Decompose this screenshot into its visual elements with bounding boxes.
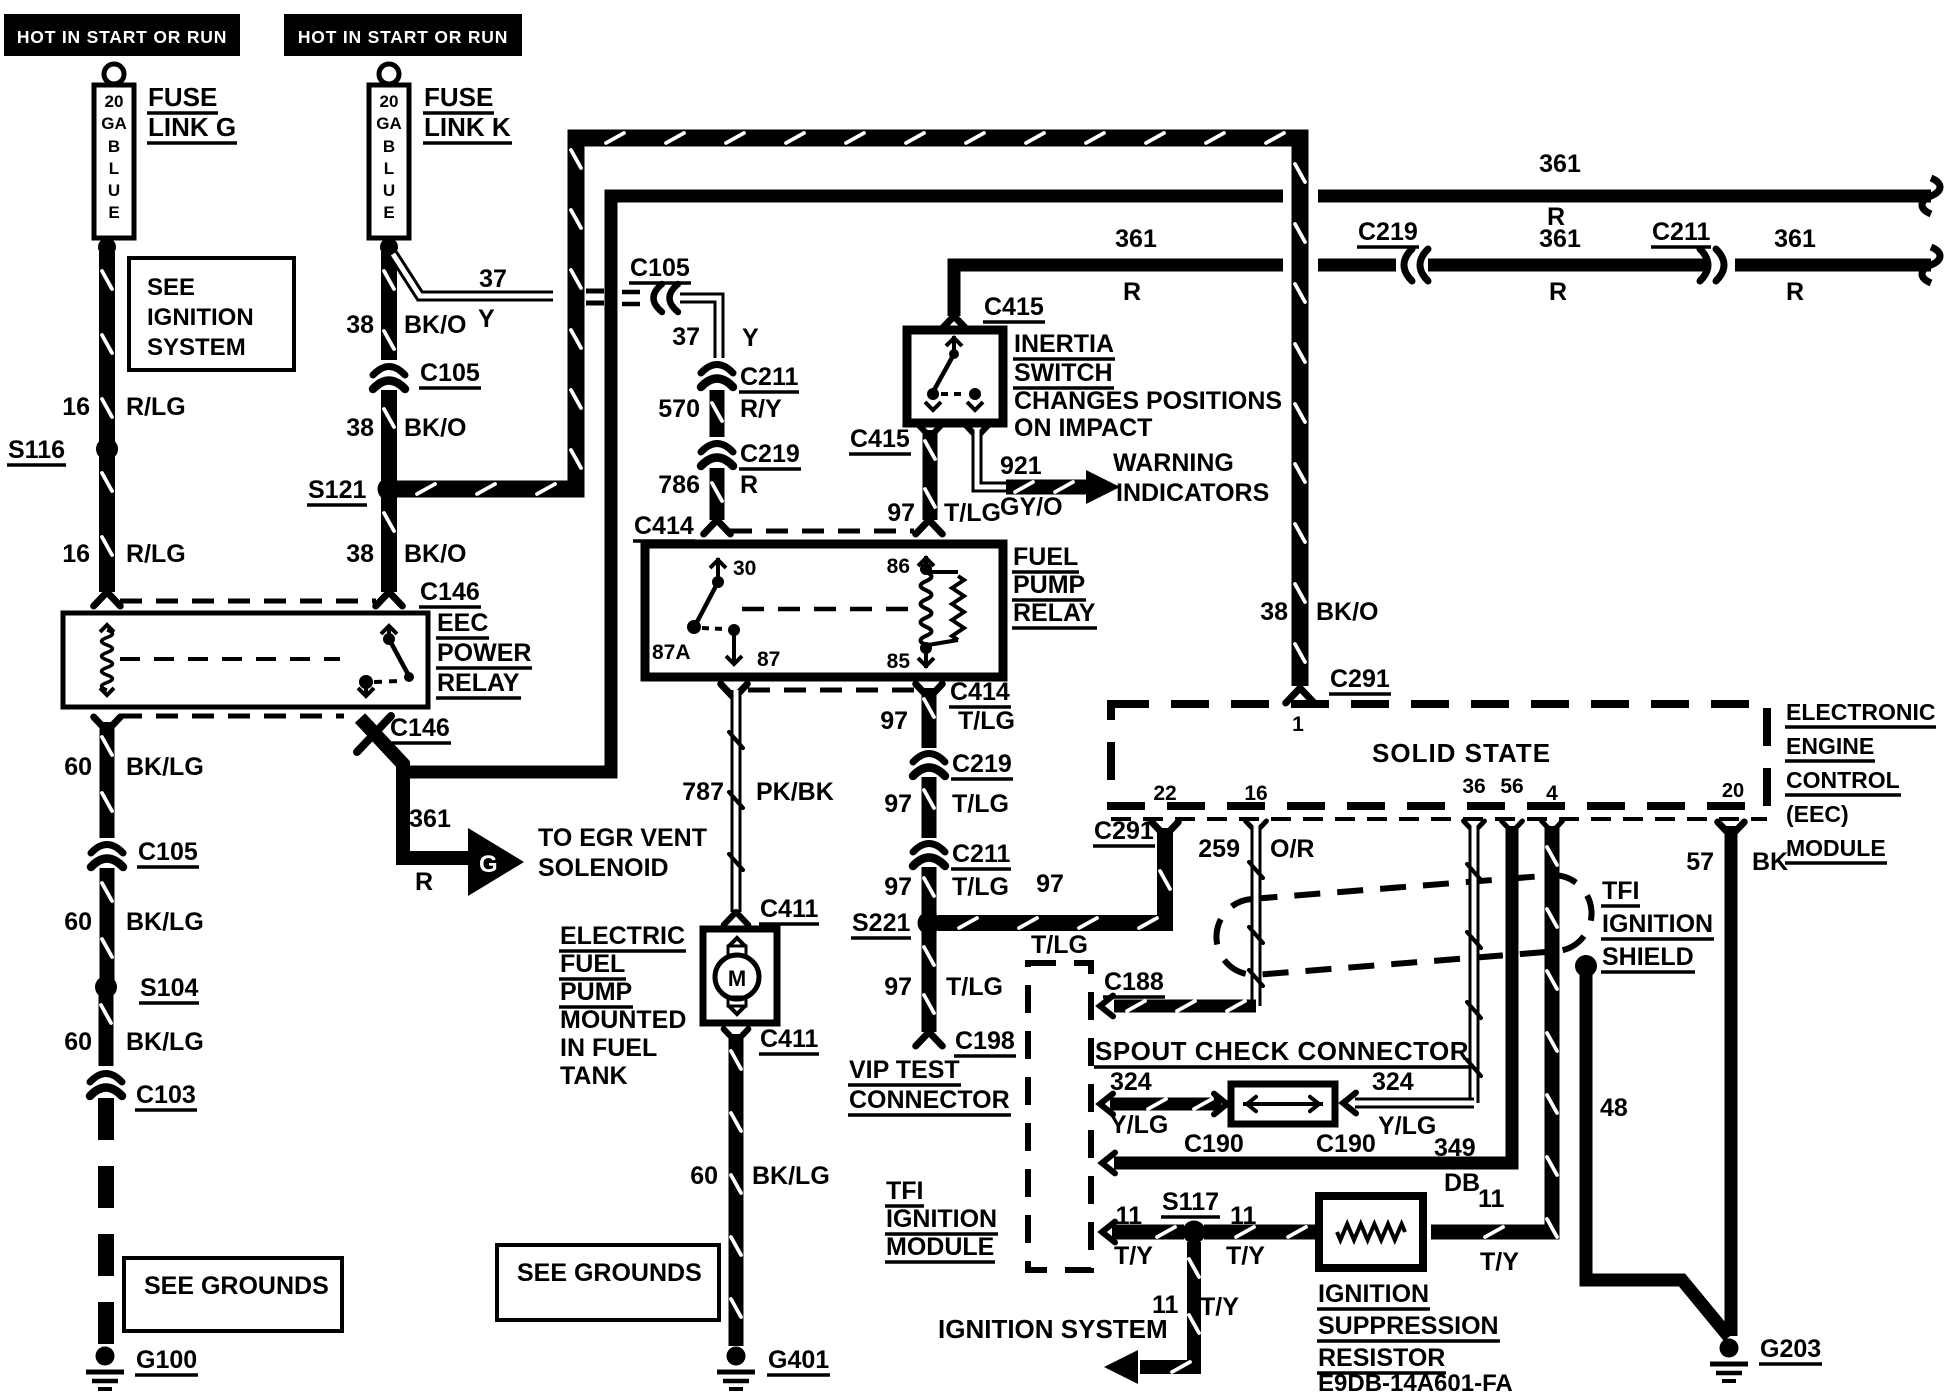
svg-text:SHIELD: SHIELD — [1602, 943, 1694, 971]
svg-text:324: 324 — [1110, 1068, 1152, 1096]
wire 11 T/Y (S117 down to ignition system) — [1140, 1242, 1194, 1367]
svg-text:C414: C414 — [950, 678, 1010, 706]
svg-text:IGNITION: IGNITION — [1318, 1280, 1429, 1308]
fuel pump relay dashed actuator line — [742, 607, 912, 612]
pin 4 V — [1542, 821, 1552, 832]
harness dashed line above fuel pump relay — [730, 529, 914, 534]
svg-text:SPOUT CHECK CONNECTOR: SPOUT CHECK CONNECTOR — [1095, 1036, 1469, 1066]
svg-text:PUMP: PUMP — [1013, 571, 1085, 599]
svg-text:C105: C105 — [630, 254, 690, 282]
label underlines — [147, 111, 218, 115]
svg-text:T/Y: T/Y — [1114, 1242, 1153, 1270]
splice S116 — [96, 438, 118, 460]
svg-text:4: 4 — [1546, 782, 1558, 805]
svg-text:R: R — [1786, 278, 1804, 306]
wire 921 arrow shaft — [1006, 480, 1086, 495]
svg-text:BK/LG: BK/LG — [126, 908, 204, 936]
svg-text:C291: C291 — [1094, 817, 1154, 845]
harness dashed line above EEC power relay — [120, 599, 376, 604]
svg-text:SEE GROUNDS: SEE GROUNDS — [517, 1259, 702, 1287]
svg-text:C146: C146 — [420, 578, 480, 606]
connector C146 left-top V — [94, 592, 107, 606]
svg-text:CHANGES POSITIONS: CHANGES POSITIONS — [1014, 387, 1282, 415]
svg-text:VIP TEST: VIP TEST — [849, 1056, 960, 1084]
svg-text:16: 16 — [62, 393, 90, 421]
svg-text:T/Y: T/Y — [1480, 1248, 1519, 1276]
connector C414 bottom-right V — [916, 684, 929, 698]
splice S104 — [95, 976, 117, 998]
svg-text:TFI: TFI — [886, 1177, 924, 1205]
splice S117 — [1183, 1221, 1206, 1244]
harness dashed line below fuel pump relay — [748, 688, 914, 693]
svg-text:GA: GA — [101, 114, 127, 133]
svg-text:O/R: O/R — [1270, 835, 1314, 863]
label HOT IN START OR RUN (right banner) — [284, 14, 522, 56]
svg-text:BK/O: BK/O — [404, 540, 467, 568]
svg-text:IGNITION SYSTEM: IGNITION SYSTEM — [938, 1314, 1168, 1344]
svg-text:C211: C211 — [1652, 218, 1710, 246]
svg-text:259: 259 — [1198, 835, 1240, 863]
svg-text:SUPPRESSION: SUPPRESSION — [1318, 1312, 1499, 1340]
wire 38 BK/O (C105 to S121) — [381, 390, 397, 484]
svg-text:ENGINE: ENGINE — [1786, 733, 1874, 759]
connector C291 pin22 V — [1152, 822, 1165, 836]
TFI ignition shield dashed oval — [1214, 872, 1595, 977]
svg-text:85: 85 — [887, 650, 911, 673]
ignition system arrowhead — [1104, 1350, 1138, 1384]
wire 921 GY/O — [977, 430, 1006, 487]
fuel pump relay box — [645, 544, 1003, 677]
svg-text:T/LG: T/LG — [958, 707, 1015, 735]
svg-text:SEE GROUNDS: SEE GROUNDS — [144, 1272, 329, 1300]
svg-text:DB: DB — [1444, 1169, 1480, 1197]
svg-text:SWITCH: SWITCH — [1014, 359, 1113, 387]
svg-text:37: 37 — [479, 265, 507, 293]
svg-text:E: E — [108, 203, 119, 222]
wire 97 T/LG (inertia switch to C414) — [923, 430, 938, 520]
connector 324 at TFI box chevron — [1100, 1094, 1113, 1115]
svg-text:C411: C411 — [760, 1025, 818, 1053]
svg-text:T/Y: T/Y — [1226, 1242, 1265, 1270]
svg-text:16: 16 — [62, 540, 90, 568]
fuel pump motor — [703, 929, 777, 1023]
svg-text:FUSE: FUSE — [148, 82, 217, 112]
wire 361 R (EEC relay to EGR branch corner) — [360, 718, 470, 858]
svg-text:U: U — [108, 181, 120, 200]
svg-text:TO EGR VENT: TO EGR VENT — [538, 824, 707, 852]
svg-text:R: R — [1549, 278, 1567, 306]
wire 324 Y/LG (TFI module to C190) — [1110, 1098, 1221, 1111]
svg-text:E: E — [383, 203, 394, 222]
svg-text:G401: G401 — [768, 1346, 829, 1374]
svg-text:BK/O: BK/O — [404, 311, 467, 339]
connector C414 left V — [704, 520, 717, 534]
svg-text:M: M — [728, 966, 746, 991]
svg-text:C219: C219 — [1358, 218, 1418, 246]
svg-text:T/LG: T/LG — [1031, 931, 1088, 959]
connector C219 horizontal — [1404, 249, 1412, 281]
svg-text:22: 22 — [1153, 782, 1176, 805]
wire 37 Y (fuse link K branch) — [393, 254, 553, 296]
connector C415 bottom-right V — [966, 425, 977, 437]
harness dashed line below EEC power relay — [120, 714, 344, 719]
svg-text:60: 60 — [64, 908, 92, 936]
svg-text:PK/BK: PK/BK — [756, 778, 834, 806]
svg-text:GY/O: GY/O — [1000, 493, 1063, 521]
svg-text:C190: C190 — [1316, 1130, 1376, 1158]
svg-text:38: 38 — [346, 414, 374, 442]
fuse link K symbol — [379, 64, 399, 84]
wire 60 BK/LG (S104 to C103) — [99, 992, 114, 1066]
svg-text:60: 60 — [64, 753, 92, 781]
connector C190 left chevron — [1214, 1094, 1227, 1115]
svg-text:POWER: POWER — [437, 639, 531, 667]
connector C146 bottom-right X — [357, 716, 391, 752]
wire 361 R (corner up to top and right edge) — [401, 196, 1283, 772]
svg-text:ON IMPACT: ON IMPACT — [1014, 414, 1152, 442]
svg-text:C415: C415 — [984, 293, 1044, 321]
svg-text:1: 1 — [1292, 713, 1304, 736]
connector 349 at TFI box chevron — [1102, 1153, 1115, 1174]
svg-text:C414: C414 — [634, 512, 694, 540]
svg-text:R: R — [1123, 278, 1141, 306]
connector C105 inline — [373, 367, 405, 376]
svg-text:TFI: TFI — [1602, 877, 1640, 905]
svg-text:L: L — [384, 159, 394, 178]
svg-text:87: 87 — [757, 648, 780, 671]
fuse link G symbol — [104, 64, 124, 84]
svg-text:R/Y: R/Y — [740, 395, 782, 423]
connector C103 inline — [90, 1074, 122, 1083]
svg-text:BK/O: BK/O — [1316, 598, 1379, 626]
splice S221 — [918, 912, 941, 935]
wire 38 BK/O (fuse link K to C105) — [381, 252, 397, 360]
connector C219 inline 2 — [913, 754, 945, 763]
svg-text:BK/LG: BK/LG — [126, 1028, 204, 1056]
svg-text:86: 86 — [887, 555, 910, 578]
svg-text:37: 37 — [672, 323, 700, 351]
connector C415 bottom-left V — [919, 425, 930, 437]
wire 361 R (lower line from inertia riser to right edge) — [954, 265, 1283, 316]
svg-text:ELECTRONIC: ELECTRONIC — [1786, 699, 1936, 725]
svg-text:97: 97 — [884, 973, 912, 1001]
svg-text:T/LG: T/LG — [946, 973, 1003, 1001]
wire 324 Y/LG (pin 36 down) — [1469, 826, 1480, 1103]
connector C105 (top middle) — [622, 290, 640, 295]
svg-text:30: 30 — [733, 557, 756, 580]
pin 36 V — [1464, 821, 1474, 832]
svg-text:921: 921 — [1000, 452, 1042, 480]
connector C414 right V (97 wire) — [916, 520, 929, 534]
svg-text:T/LG: T/LG — [952, 790, 1009, 818]
svg-text:Y/LG: Y/LG — [1110, 1111, 1168, 1139]
svg-text:C190: C190 — [1184, 1130, 1244, 1158]
svg-text:11: 11 — [1478, 1185, 1505, 1213]
svg-text:RESISTOR: RESISTOR — [1318, 1344, 1445, 1372]
svg-text:RELAY: RELAY — [437, 669, 520, 697]
svg-text:324: 324 — [1372, 1068, 1414, 1096]
wire 60 BK/LG (fuel pump to G401) — [729, 1034, 744, 1346]
svg-text:786: 786 — [658, 471, 700, 499]
svg-text:S116: S116 — [8, 436, 65, 464]
label HOT IN START OR RUN (left banner) — [4, 14, 240, 56]
svg-text:C146: C146 — [390, 714, 450, 742]
connector C411 top V — [724, 912, 736, 925]
svg-text:349: 349 — [1434, 1134, 1476, 1162]
wire 38 BK/O (S121 up and across top to C291) — [396, 138, 1300, 686]
connector C211 inline 2 — [913, 844, 945, 853]
svg-text:R/LG: R/LG — [126, 393, 186, 421]
svg-text:C219: C219 — [740, 440, 800, 468]
svg-text:C291: C291 — [1330, 665, 1390, 693]
svg-text:87A: 87A — [652, 641, 691, 664]
svg-text:97: 97 — [1036, 870, 1064, 898]
svg-text:C219: C219 — [952, 750, 1012, 778]
wire 16 R/LG (fuse link G to S116) — [99, 252, 115, 444]
svg-text:R: R — [415, 868, 433, 896]
svg-text:U: U — [383, 181, 395, 200]
svg-text:T/Y: T/Y — [1200, 1293, 1239, 1321]
svg-text:G100: G100 — [136, 1346, 197, 1374]
wire 97 T/LG (S221 to C198) — [922, 932, 937, 1032]
svg-text:CONTROL: CONTROL — [1786, 767, 1900, 793]
svg-text:361: 361 — [1539, 225, 1581, 253]
svg-text:EEC: EEC — [437, 609, 488, 637]
svg-text:C411: C411 — [760, 895, 818, 923]
connector C198 V — [916, 1032, 929, 1046]
svg-text:SEE: SEE — [147, 274, 195, 301]
svg-text:SOLENOID: SOLENOID — [538, 854, 669, 882]
connector C291 top V — [1286, 688, 1300, 703]
svg-text:INDICATORS: INDICATORS — [1116, 479, 1269, 507]
ground G100 — [96, 1347, 115, 1366]
EEC power relay switch — [381, 626, 397, 634]
svg-text:LINK G: LINK G — [148, 112, 236, 142]
ignition suppression resistor box — [1319, 1196, 1423, 1268]
svg-text:S117: S117 — [1162, 1188, 1219, 1216]
splice S121 — [378, 478, 401, 501]
svg-text:(EEC): (EEC) — [1786, 801, 1849, 827]
svg-text:SOLID STATE: SOLID STATE — [1372, 738, 1551, 768]
svg-text:56: 56 — [1500, 775, 1523, 798]
wire 259 O/R horizontal to C188 — [1114, 1000, 1256, 1013]
fuel pump relay pin 30 and switch — [710, 560, 726, 568]
wire 38 BK/O (S121 to C146) — [381, 494, 397, 592]
EEC power relay box — [63, 613, 428, 707]
wire 97 T/LG (C211 to S221) — [922, 867, 937, 918]
wire 570 R/Y — [710, 390, 725, 437]
EEC power relay coil — [100, 625, 114, 632]
wire 11 T/Y (S117 to TFI module) — [1112, 1225, 1184, 1240]
wire 259 O/R (pin 16 to C188) — [1251, 826, 1262, 1006]
connector 11 at TFI box chevron — [1102, 1222, 1115, 1243]
svg-text:IN FUEL: IN FUEL — [560, 1034, 657, 1062]
svg-text:97: 97 — [887, 499, 915, 527]
svg-text:38: 38 — [1260, 598, 1288, 626]
note box SEE IGNITION SYSTEM — [129, 258, 294, 370]
wire 324 Y/LG (to C190 right) — [1355, 1098, 1474, 1109]
wire 60 BK/LG (C105 to S104) — [100, 868, 115, 980]
svg-text:B: B — [383, 137, 395, 156]
svg-text:G203: G203 — [1760, 1335, 1821, 1363]
connector C211 inline — [701, 365, 733, 374]
svg-text:B: B — [108, 137, 120, 156]
connector C146 bottom-left V — [94, 717, 107, 731]
connector C105 left inline — [91, 845, 123, 854]
svg-text:FUEL: FUEL — [560, 950, 625, 978]
svg-text:60: 60 — [64, 1028, 92, 1056]
svg-text:LINK K: LINK K — [424, 112, 511, 142]
svg-text:IGNITION: IGNITION — [1602, 910, 1713, 938]
svg-text:MOUNTED: MOUNTED — [560, 1006, 686, 1034]
note box SEE GROUNDS left — [124, 1258, 342, 1331]
inertia switch box — [907, 330, 1003, 423]
svg-text:787: 787 — [682, 778, 724, 806]
svg-text:CONNECTOR: CONNECTOR — [849, 1086, 1010, 1114]
spout check connector C190 box — [1231, 1084, 1335, 1124]
svg-text:SYSTEM: SYSTEM — [147, 334, 246, 361]
svg-text:C105: C105 — [138, 838, 198, 866]
wire 16 R/LG (S116 to EEC power relay) — [99, 454, 115, 592]
svg-text:MODULE: MODULE — [1786, 835, 1886, 861]
wire 786 R — [710, 468, 725, 520]
svg-text:HOT IN START OR RUN: HOT IN START OR RUN — [17, 27, 227, 47]
wire to G100 (dashed heavy) — [98, 1098, 114, 1344]
svg-text:C188: C188 — [1104, 968, 1164, 996]
svg-text:38: 38 — [346, 540, 374, 568]
svg-text:97: 97 — [884, 873, 912, 901]
wire 37 Y (C105 to C211) — [680, 298, 719, 358]
connector C146 right-top V — [376, 592, 389, 606]
warning indicators arrowhead — [1086, 470, 1120, 504]
svg-text:G: G — [479, 851, 498, 878]
svg-text:S221: S221 — [852, 909, 910, 937]
EEC module dashed box — [1111, 704, 1767, 806]
svg-text:Y: Y — [742, 324, 759, 352]
svg-text:60: 60 — [690, 1162, 718, 1190]
note box SEE GROUNDS middle — [497, 1245, 719, 1320]
svg-text:C415: C415 — [850, 425, 910, 453]
connector C411 bottom V — [724, 1029, 736, 1042]
fuel pump relay coil and resistor — [918, 558, 934, 566]
svg-text:361: 361 — [409, 805, 451, 833]
svg-text:C211: C211 — [740, 363, 798, 391]
svg-text:16: 16 — [1244, 782, 1267, 805]
svg-text:HOT IN START OR RUN: HOT IN START OR RUN — [298, 27, 508, 47]
svg-text:RELAY: RELAY — [1013, 599, 1096, 627]
connector C414 bottom-left V — [721, 684, 734, 698]
connector C415 top V — [941, 316, 954, 330]
svg-text:97: 97 — [880, 707, 908, 735]
svg-text:20: 20 — [380, 92, 399, 111]
svg-text:C103: C103 — [136, 1081, 196, 1109]
svg-text:97: 97 — [884, 790, 912, 818]
wire 361 R squiggle end lower — [1922, 247, 1940, 283]
svg-text:T/LG: T/LG — [944, 499, 1001, 527]
svg-text:57: 57 — [1686, 848, 1714, 876]
svg-text:361: 361 — [1539, 150, 1581, 178]
wire 57 BK (pin 20 to G203) — [1725, 826, 1738, 1336]
svg-text:BK/O: BK/O — [404, 414, 467, 442]
svg-text:FUEL: FUEL — [1013, 543, 1078, 571]
wire 97 (S221 to EEC pin 22) — [938, 828, 1165, 923]
svg-text:ELECTRIC: ELECTRIC — [560, 922, 685, 950]
pin 16 V — [1246, 821, 1256, 832]
wire 37 break symbol = — [586, 289, 604, 294]
svg-text:BK: BK — [1752, 848, 1788, 876]
svg-text:C105: C105 — [420, 359, 480, 387]
svg-text:INERTIA: INERTIA — [1014, 330, 1114, 358]
svg-text:R: R — [740, 471, 758, 499]
wire 787 PK/BK — [731, 690, 742, 912]
svg-text:WARNING: WARNING — [1113, 449, 1234, 477]
svg-text:11: 11 — [1230, 1202, 1257, 1230]
svg-text:C198: C198 — [955, 1027, 1015, 1055]
svg-text:BK/LG: BK/LG — [126, 753, 204, 781]
svg-text:GA: GA — [376, 114, 402, 133]
svg-text:361: 361 — [1774, 225, 1816, 253]
ground G401 — [727, 1347, 746, 1366]
svg-text:S121: S121 — [308, 476, 366, 504]
connector C190 right chevron — [1343, 1093, 1356, 1114]
svg-text:BK/LG: BK/LG — [752, 1162, 830, 1190]
pin 56 V — [1502, 821, 1512, 832]
svg-text:C211: C211 — [952, 840, 1010, 868]
wire 97 T/LG (C219 to C211) — [922, 777, 937, 838]
svg-text:570: 570 — [658, 395, 700, 423]
TFI ignition module dashed box — [1028, 963, 1091, 1270]
svg-text:38: 38 — [346, 311, 374, 339]
svg-text:Y: Y — [478, 305, 495, 333]
wire 361 R squiggle end top — [1922, 178, 1940, 214]
EEC module connector face dashed line — [1111, 817, 1767, 821]
svg-text:36: 36 — [1462, 775, 1485, 798]
pin 20 V — [1718, 822, 1731, 836]
inertia switch contacts — [952, 336, 956, 352]
svg-text:IGNITION: IGNITION — [147, 304, 254, 331]
wire 349 DB (pin 56 to TFI module) — [1114, 826, 1512, 1163]
EEC power relay dashed actuator — [120, 657, 340, 661]
wire 11 T/Y (resistor to S117) — [1204, 1225, 1319, 1240]
svg-text:R/LG: R/LG — [126, 540, 186, 568]
wire 11 T/Y (pin 4 down to resistor) — [1431, 826, 1552, 1232]
svg-text:L: L — [109, 159, 119, 178]
connector C219 inline — [701, 444, 733, 453]
connector C211 horizontal — [1716, 249, 1724, 281]
wire 60 BK/LG (relay to C105) — [100, 722, 115, 838]
EGR arrow with G — [468, 828, 524, 896]
svg-text:48: 48 — [1600, 1094, 1628, 1122]
svg-text:20: 20 — [105, 92, 124, 111]
svg-text:11: 11 — [1116, 1202, 1143, 1230]
wire 97 T/LG (relay 85 to C219) — [922, 688, 937, 748]
svg-text:MODULE: MODULE — [886, 1233, 994, 1261]
ground G203 — [1720, 1339, 1739, 1358]
svg-text:TANK: TANK — [560, 1062, 628, 1090]
svg-text:IGNITION: IGNITION — [886, 1205, 997, 1233]
connector C188 chevron — [1100, 996, 1113, 1017]
svg-text:T/LG: T/LG — [952, 873, 1009, 901]
svg-text:361: 361 — [1115, 225, 1157, 253]
svg-text:S104: S104 — [140, 974, 198, 1002]
svg-text:FUSE: FUSE — [424, 82, 493, 112]
svg-text:PUMP: PUMP — [560, 978, 632, 1006]
wire 48 shield drain — [1586, 975, 1729, 1337]
svg-text:20: 20 — [1722, 780, 1744, 802]
svg-text:Y/LG: Y/LG — [1378, 1112, 1436, 1140]
